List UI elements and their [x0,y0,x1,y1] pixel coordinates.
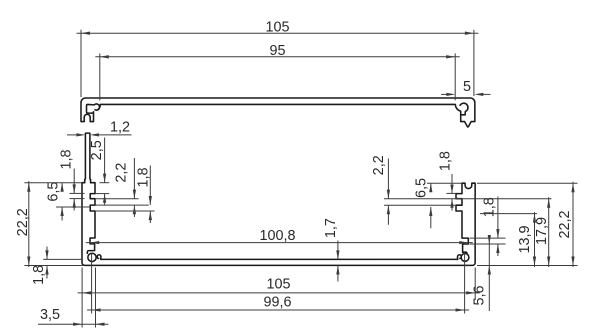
svg-text:6,5: 6,5 [45,182,61,202]
svg-text:6,5: 6,5 [413,178,429,198]
svg-text:3,5: 3,5 [40,307,60,323]
top profile right clip slot lip [461,112,466,114]
svg-text:1,8: 1,8 [437,151,453,171]
top profile right clip ear [460,103,468,111]
dimension 22,2 left [15,181,84,267]
dimension 1,8 left groove [58,149,84,210]
svg-text:5: 5 [463,79,471,95]
dimension 5,6 [472,235,491,311]
dimension 1,8 right rib 2 [437,151,456,210]
dimension 1,8 left groove 2 [95,166,155,224]
dimension 17,9 [534,197,550,267]
svg-text:100,8: 100,8 [259,228,295,244]
base right screw-slot hook [458,255,462,260]
svg-text:1,8: 1,8 [482,197,498,217]
svg-text:1,8: 1,8 [58,149,74,169]
dimension 6,5 left [45,182,90,221]
dimension 3,5 [38,268,109,328]
bottom base profile outline [82,133,475,265]
dimension 105 top [77,19,479,97]
top cover profile outline [81,98,475,127]
dimension 1,7 floor [323,218,340,281]
svg-text:22,2: 22,2 [15,208,31,236]
base left screw boss hole [88,253,96,261]
svg-text:99,6: 99,6 [263,294,291,310]
svg-text:2,5: 2,5 [89,140,105,160]
dimension 2,2 left rib [95,158,149,217]
svg-text:105: 105 [265,19,289,35]
svg-text:1,8: 1,8 [135,167,151,187]
dimension 22,2 right [477,182,578,267]
base floor top surface [101,258,458,260]
dimension 1,8 right rib 1 [470,197,506,257]
svg-text:105: 105 [266,276,290,292]
base right screw boss hole [461,254,469,262]
dimension 2,5 [89,138,109,205]
dimension 1,2 wall fin width [67,120,132,137]
dimension 5 [441,79,491,96]
svg-text:95: 95 [269,43,285,59]
svg-text:1,2: 1,2 [110,120,130,136]
svg-text:2,2: 2,2 [114,163,130,183]
svg-text:5,6: 5,6 [472,285,488,305]
dimension 13,9 [477,212,578,267]
base left screw-slot hook [97,255,101,260]
dimension 99,6 [87,253,469,314]
svg-text:22,2: 22,2 [557,210,573,238]
svg-text:17,9: 17,9 [534,217,550,245]
dimension 95 [95,43,459,100]
dimension 1,8 floor thickness left [31,247,82,285]
svg-text:1,8: 1,8 [31,265,47,285]
dimension 100,8 [86,228,473,244]
dimension 2,2 right slot [371,155,552,225]
svg-text:13,9: 13,9 [517,225,533,253]
svg-text:2,2: 2,2 [371,155,387,175]
dimension 105 bottom [78,268,480,301]
dimension 6,5 right [413,178,462,228]
svg-text:1,7: 1,7 [323,218,339,238]
